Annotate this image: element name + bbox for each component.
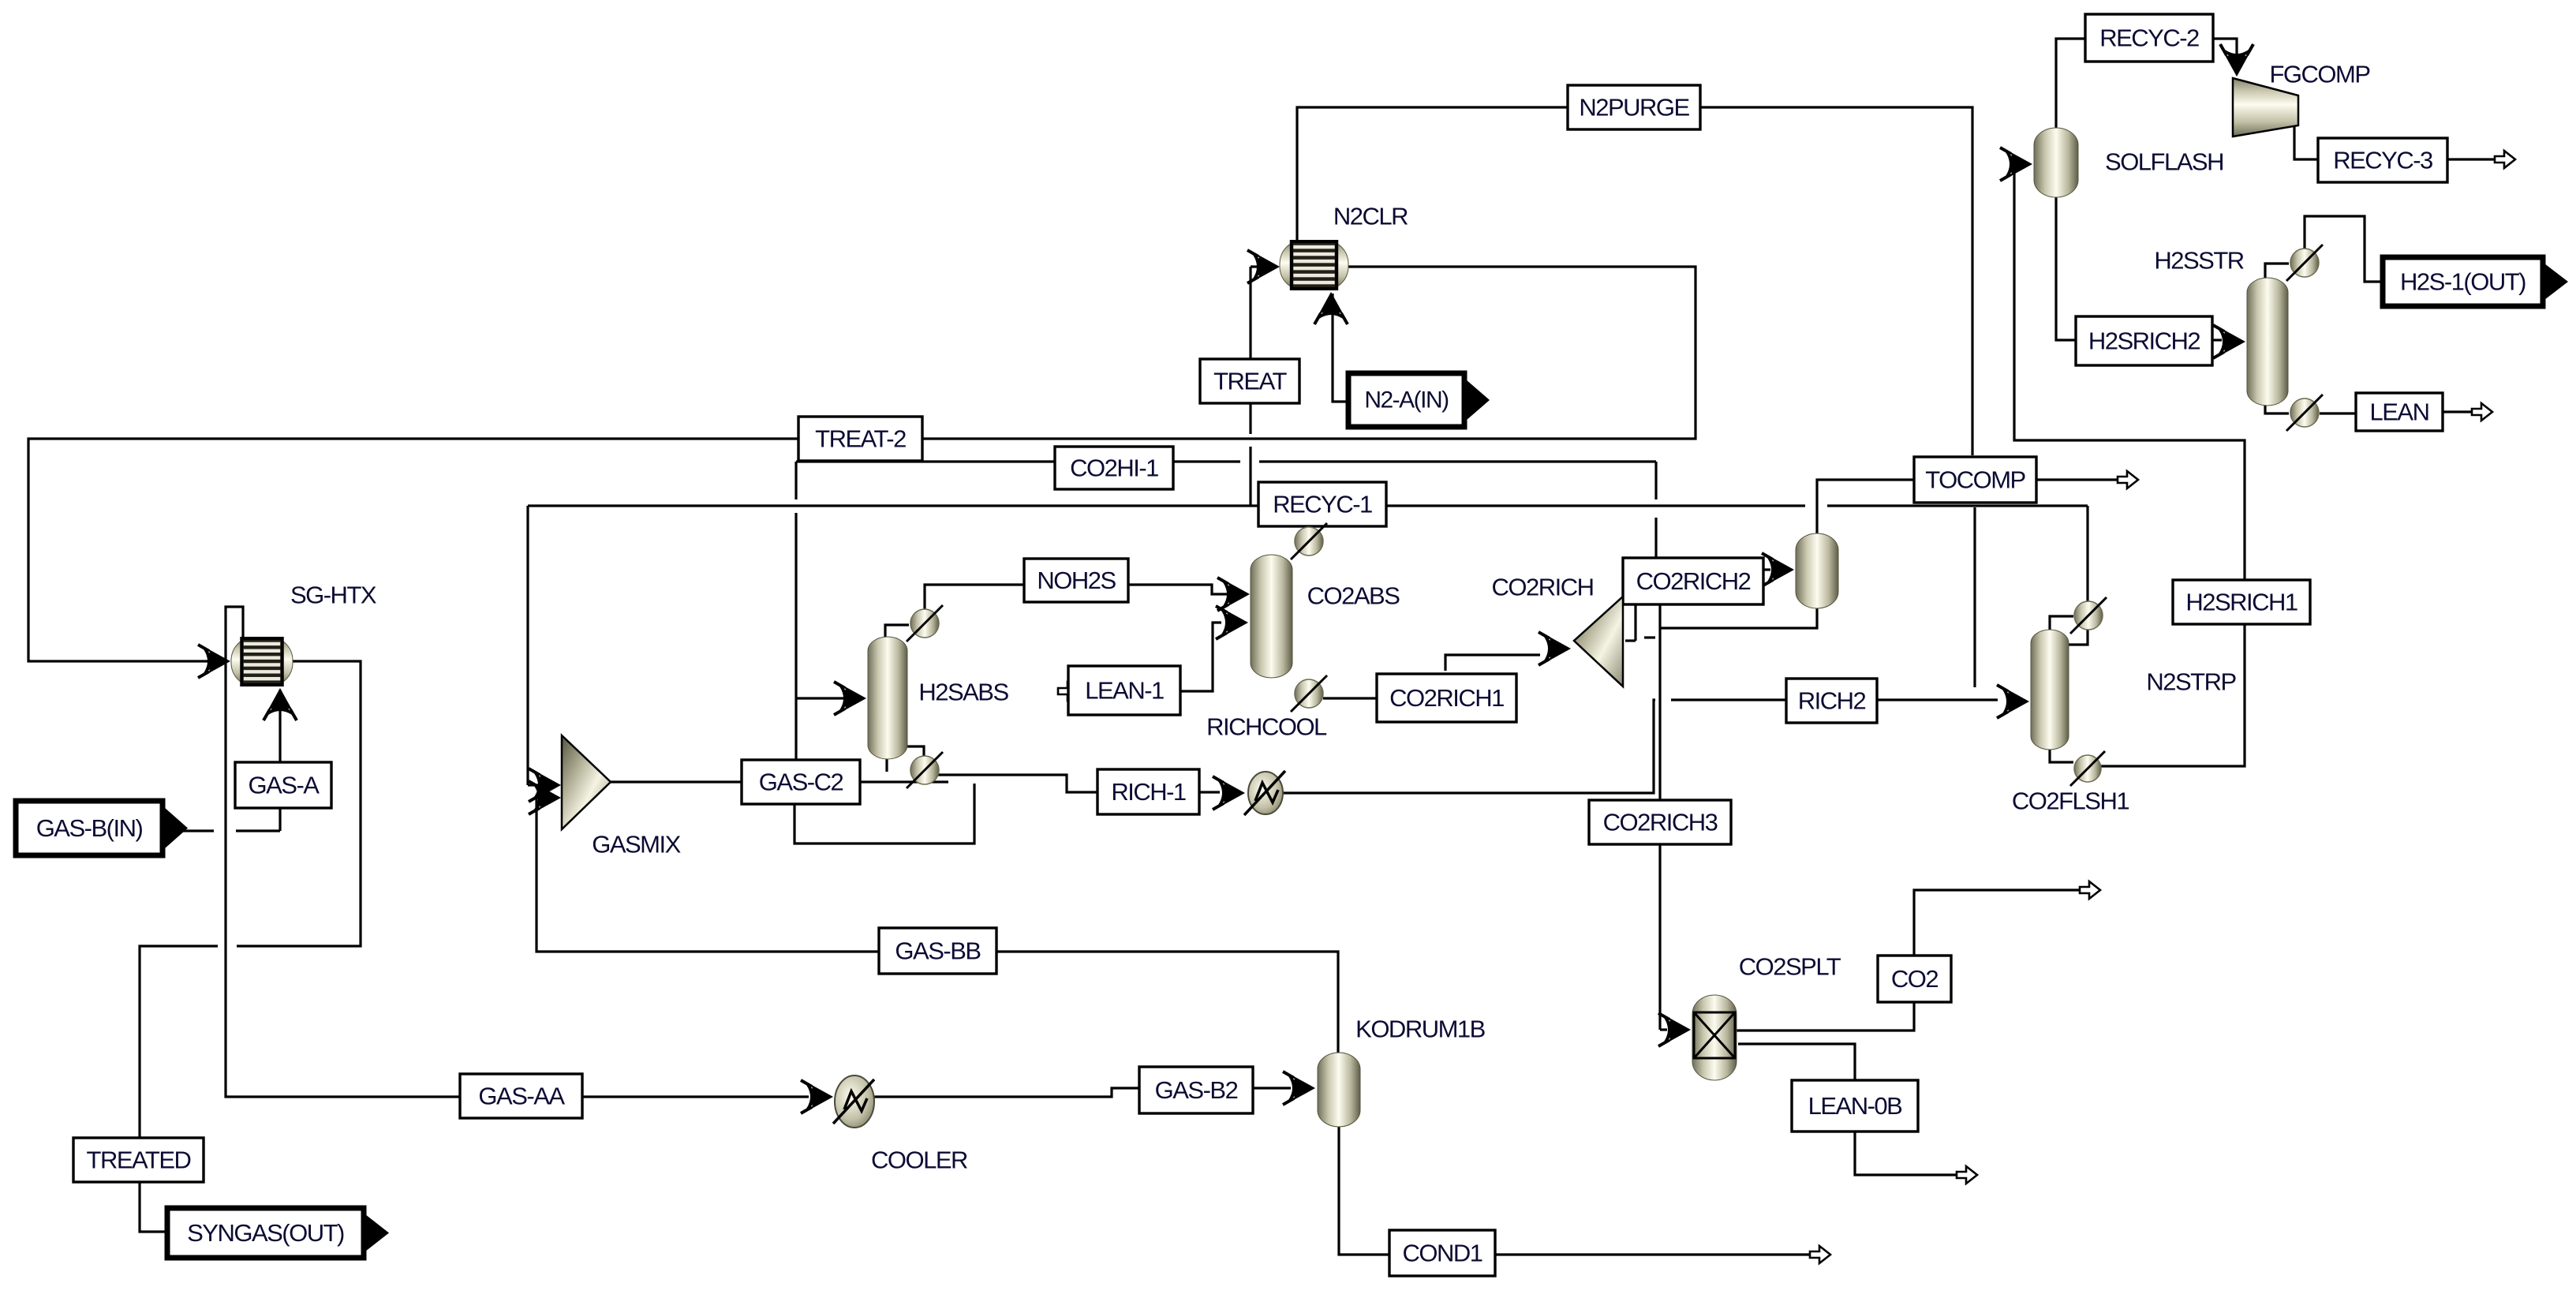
stream label GAS-AA [460,1074,582,1118]
wire H2SRICH2 line2 [2212,339,2222,341]
off-page arrow LEAN off-page [2472,403,2492,421]
wire CO2SPLT feed [1660,1028,1667,1031]
wire GAS-A riser [279,690,281,831]
wire CO2 line [1737,890,2083,1031]
column N2STRP [2031,630,2069,750]
stream label CO2 [1878,956,1951,1002]
stream label CO2RICH3 [1589,800,1731,844]
svg-text:CO2FLSH1: CO2FLSH1 [2012,787,2129,815]
splitter CO2SPLT [1692,995,1737,1080]
off-page arrow LEAN-0B off-page [1957,1166,1977,1184]
stream label TREATED [73,1138,204,1182]
svg-text:LEAN-0B: LEAN-0B [1808,1092,1903,1120]
stream label TREAT-2 [798,417,922,461]
exchanger circle H2SSTR condenser [2286,245,2323,281]
wire TREAT-2 n2clr-out [28,267,1696,661]
wire RICH2 line [1671,698,1786,701]
heat exchanger SG-HTX [231,638,293,685]
stream label RECYC-1 [1258,482,1386,526]
wire LEAN line [2320,412,2356,414]
wire RECYC-2 line2 [2213,39,2237,73]
stream label H2S-1(OUT) [2383,257,2568,306]
svg-text:GAS-C2: GAS-C2 [759,769,843,796]
stream label RICH-1 [1097,769,1199,814]
svg-text:N2STRP: N2STRP [2146,668,2236,696]
svg-text:TREATED: TREATED [87,1147,191,1174]
off-page arrow COND1 off-page [1810,1246,1830,1263]
wire H2S-1 line [2305,216,2383,282]
drum SOLFLASH [2034,128,2078,197]
stream label GAS-A [235,762,331,808]
arrow into H2SSTR [2213,325,2245,358]
svg-text:LEAN-1: LEAN-1 [1085,677,1164,705]
wire LEAN-1 line [1180,623,1221,691]
wire COND1 line [1339,1127,1389,1255]
svg-text:GASMIX: GASMIX [592,831,681,858]
wire RICH-1 out [1199,791,1220,793]
svg-text:SOLFLASH: SOLFLASH [2105,148,2223,176]
stream label GAS-C2 [742,760,860,804]
arrow into FGCOMP [2220,44,2253,77]
wire TREAT upper [1249,267,1251,434]
stream label RECYC-2 [2085,14,2213,62]
svg-text:CO2HI-1: CO2HI-1 [1070,454,1158,482]
stream label LEAN [2356,393,2443,431]
svg-text:RECYC-2: RECYC-2 [2099,24,2199,52]
svg-text:CO2RICH: CO2RICH [1491,574,1593,601]
svg-text:RECYC-1: RECYC-1 [1273,491,1372,518]
svg-text:N2-A(IN): N2-A(IN) [1364,387,1449,413]
splitter CO2RICH [1574,597,1623,686]
svg-text:RICHCOOL: RICHCOOL [1206,713,1327,741]
arrow into SG-HTX left [198,645,230,678]
heater RICHCOOL [1244,771,1285,815]
drum flash drum [1796,533,1838,608]
svg-text:TREAT: TREAT [1213,368,1287,395]
wire COND1 line2 [1495,1253,1812,1255]
exchanger circle N2STRP reboiler [2070,751,2105,786]
svg-text:N2PURGE: N2PURGE [1579,94,1689,122]
svg-text:CO2RICH3: CO2RICH3 [1603,809,1718,836]
arrow into KODRUM1B [1283,1072,1315,1105]
stream label TREAT [1200,359,1299,403]
arrow into RICHCOOL [1213,776,1245,810]
stream label COND1 [1389,1230,1495,1276]
arrow into CO2SPLT [1658,1013,1691,1046]
wire H2SSTR top stub [2265,264,2289,278]
wire CO2HI-1 to CO2RICH2 upper [1654,462,1657,499]
svg-text:SYNGAS(OUT): SYNGAS(OUT) [187,1219,344,1247]
column H2SABS [868,637,907,759]
wire GAS-C2 main [611,780,948,783]
wire H2SABS reb in [907,746,924,757]
exchanger circle H2SABS condenser [907,605,943,642]
arrow into GASMIX lower [529,781,561,814]
svg-text:GAS-B2: GAS-B2 [1155,1076,1238,1104]
off-page arrow LEAN-1 source [1058,683,1079,700]
heater COOLER [833,1075,874,1128]
wire GAS-B2 line2 [1253,1087,1291,1089]
stream label CO2HI-1 [1055,447,1173,489]
stream label TOCOMP [1914,457,2036,503]
wire N2STRP top stub [2050,616,2073,630]
wire CO2RICH3 vert [1658,604,1661,1030]
wire TOCOMP in [1817,480,1914,533]
wire LEAN-0B line2 [1855,1132,1960,1175]
wire RICH-1 [937,775,1097,792]
svg-text:H2SRICH2: H2SRICH2 [2088,327,2200,355]
arrow into N2STRP [1997,685,2029,718]
arrow into CO2ABS upper [1217,578,1250,611]
arrow into SG-HTX bottom [264,688,297,720]
wire RECYC-3 line [2294,125,2318,159]
heat exchanger N2CLR [1280,241,1348,289]
exchanger circle N2STRP condenser [2070,597,2107,634]
arrow into N2CLR left [1247,250,1280,283]
wire RICH2 line2 [1877,698,1998,701]
wire CO2HI-1 right [1259,460,1656,462]
column H2SSTR [2247,278,2288,406]
wire LEAN line2 [2443,410,2474,413]
svg-text:GAS-A: GAS-A [249,772,320,799]
svg-text:CO2ABS: CO2ABS [1307,582,1400,610]
svg-text:LEAN: LEAN [2370,398,2429,426]
off-page arrow RECYC-3 off-page [2495,151,2515,168]
stream label LEAN-1 [1068,666,1180,715]
arrow into N2CLR bottom [1314,292,1348,324]
stream label N2-A(IN) [1348,373,1490,427]
svg-text:SG-HTX: SG-HTX [290,582,377,609]
svg-text:GAS-B(IN): GAS-B(IN) [36,814,143,842]
stream label GAS-B2 [1139,1067,1253,1113]
column CO2ABS [1251,555,1292,678]
wire CO2RICH2 riser [1634,604,1636,641]
stream label N2PURGE [1568,85,1700,129]
wire GAS-BB [537,798,1338,1053]
wire TREAT into N2CLR [1251,265,1277,267]
wire RECYC-1 to GASMIX drop [526,506,529,785]
wire CO2ABS cond riser [1307,506,1310,529]
wire RECYC-1 to GASMIX [528,784,555,786]
svg-text:CO2: CO2 [1891,965,1939,993]
wire CO2RICH2 notch [1625,639,1636,642]
stream label SYNGAS(OUT) [167,1208,389,1258]
wire TREATED line [237,661,361,946]
arrow into CO2ABS lower [1216,606,1248,639]
svg-text:RICH-1: RICH-1 [1111,778,1186,806]
stream label CO2RICH1 [1377,674,1516,722]
svg-text:CO2SPLT: CO2SPLT [1739,953,1841,981]
svg-text:H2SSTR: H2SSTR [2154,247,2243,275]
wire RICHCOOL out [1282,700,1655,793]
wire TOCOMP out [2036,478,2119,481]
wire TREAT mid [1249,447,1251,506]
wire N2-A [1333,294,1348,402]
svg-text:COND1: COND1 [1402,1240,1482,1267]
exchanger circle CO2ABS reboiler [1291,675,1327,712]
arrow into GASMIX upper [529,769,561,802]
exchanger circle H2SABS reboiler [907,752,943,788]
svg-text:GAS-BB: GAS-BB [895,937,981,965]
wire CO2HI-1 drop lower [794,513,797,760]
wire NOH2S [925,585,1228,609]
svg-text:TREAT-2: TREAT-2 [815,425,906,453]
wire CO2HI-1 left [796,460,1240,462]
wire H2SRICH2 line [2056,197,2076,340]
wire GAS-B2 line [874,1088,1139,1097]
stream label GAS-B(IN) [16,801,188,855]
exchanger circle H2SSTR reboiler [2286,395,2323,431]
wire RECYC-1 header right [1827,504,2088,507]
wire H2SABS top stub [885,625,909,638]
wire H2SABS feed [796,697,858,699]
wire GAS-C2 loop [794,784,974,844]
stream label NOH2S [1024,559,1128,602]
arrow into CO2RICH splitter [1538,632,1571,665]
svg-text:COOLER: COOLER [871,1147,967,1174]
wire CO2HI-1 to CO2RICH2 lower [1654,518,1657,560]
stream label GAS-BB [879,928,996,974]
stream label H2SRICH1 [2173,580,2310,624]
svg-text:GAS-AA: GAS-AA [478,1083,565,1110]
compressor FGCOMP [2233,78,2298,137]
wire LEAN-0B line [1738,1044,1855,1082]
wire N2STRP cond riser [2086,506,2088,602]
stream label H2SRICH2 [2076,316,2212,365]
wire RECYC-3 line2 [2447,158,2497,160]
svg-text:CO2RICH1: CO2RICH1 [1389,684,1504,712]
mixer GASMIX [562,735,611,829]
arrow into flash drum [1762,553,1794,586]
svg-text:H2SRICH1: H2SRICH1 [2185,589,2297,616]
stream label CO2RICH2 [1623,558,1763,604]
wire H2SRICH1 route [2014,164,2245,766]
wire CO2RICH2 out [1763,568,1770,570]
wire GAS-B line2 [236,829,280,832]
wire RECYC-1 header left [528,504,1805,507]
wire N2STRP cond return [2061,630,2088,645]
stream label RECYC-3 [2318,138,2447,182]
wire TOCOMP stub [1973,507,1976,687]
svg-text:H2SABS: H2SABS [918,679,1008,706]
wire RECYC-2 line [2056,39,2085,128]
svg-text:TOCOMP: TOCOMP [1925,466,2025,494]
svg-text:N2CLR: N2CLR [1333,203,1408,230]
wire N2PURGE [1297,107,1972,455]
wire H2SSTR bottom stub [2265,406,2289,413]
drum KODRUM1B [1318,1053,1360,1127]
arrow into SOLFLASH [2000,148,2032,181]
wire H2SABS bottom stub [885,757,888,772]
stream label RICH2 [1786,679,1877,723]
svg-text:RECYC-3: RECYC-3 [2333,147,2432,174]
arrow into H2SABS [834,682,866,715]
wire GAS-B line [182,829,214,832]
svg-text:H2S-1(OUT): H2S-1(OUT) [2400,268,2526,296]
svg-text:FGCOMP: FGCOMP [2269,61,2370,88]
wire CO2RICH1 out [1445,655,1540,671]
exchanger circle CO2ABS condenser [1291,523,1327,559]
svg-text:NOH2S: NOH2S [1037,567,1116,594]
svg-text:KODRUM1B: KODRUM1B [1355,1016,1486,1043]
wire N2STRP bottom stub [2050,750,2073,762]
wire CO2HI-1 drop upper [794,462,797,499]
off-page arrow TOCOMP off-page [2118,471,2138,488]
wire drum bottoms [1660,608,1817,628]
wire GAS-AA line [226,607,809,1097]
off-page arrow CO2 off-page [2080,881,2100,899]
arrow into COOLER [801,1080,833,1113]
wire TREATED line2 [140,946,218,1232]
svg-text:CO2RICH2: CO2RICH2 [1636,567,1751,595]
stream label LEAN-0B [1792,1080,1918,1132]
svg-text:RICH2: RICH2 [1798,687,1866,715]
wire CO2RICH1 in [1323,697,1377,699]
wire splitter out2 dash [1644,636,1655,638]
